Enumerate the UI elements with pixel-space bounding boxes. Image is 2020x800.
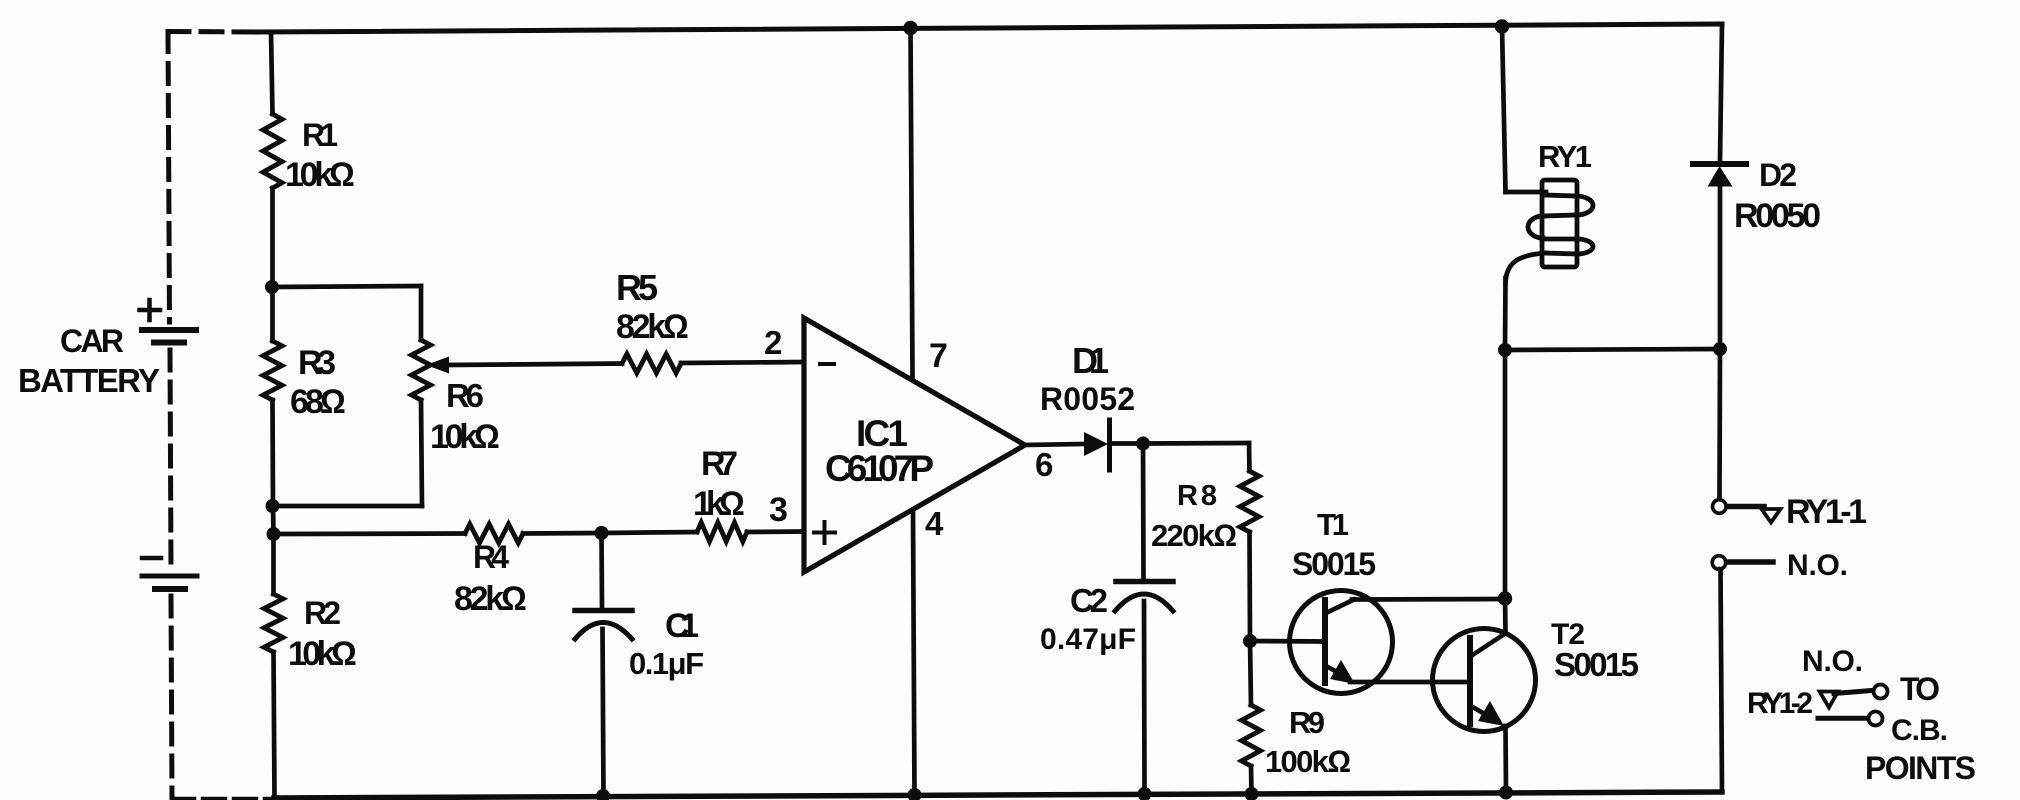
resistor R2 [264,594,283,652]
svg-text:10kΩ: 10kΩ [288,635,357,673]
wire op-amp output [1025,444,1084,445]
wire relay entry [1506,190,1547,195]
svg-text:S0015: S0015 [1292,546,1376,582]
node D junction dot [595,526,609,540]
capacitor C2 bottom lead [1142,601,1147,794]
node C1-bottom junction dot [596,789,610,800]
svg-text:N.O.: N.O. [1802,645,1863,678]
wire R7 to op-amp pin 3 [747,529,804,534]
svg-text:0.47μF: 0.47μF [1040,623,1136,656]
wire pot box top [272,286,421,287]
contact RY1-2 upper arm [1834,691,1872,694]
svg-text:6: 6 [1035,446,1053,483]
svg-text:R0050: R0050 [1734,197,1821,235]
resistor R7 [697,523,747,542]
wire R8 to node F [1247,532,1252,641]
wire R1 to node A [270,188,275,287]
wire R8 top lead [1247,443,1252,471]
capacitor C1 bottom lead [603,629,604,796]
wire R5 to op-amp pin 2 [681,362,804,363]
wire D2 branch top [1720,24,1722,161]
wire bottom bus [274,792,1722,798]
wire relay branch down [1502,27,1506,193]
svg-text:D1: D1 [1072,340,1109,381]
op-amp minus sign [820,362,834,366]
svg-text:2: 2 [764,324,782,361]
battery cell plus long plate [142,327,196,333]
resistor R1 [263,114,282,188]
diode D2 cathode bar [1693,161,1746,167]
wire node C to R2 [271,534,276,594]
capacitor C2 bottom curved plate [1115,594,1173,611]
contact RY1-2 wiper triangle [1820,692,1839,708]
contact RY1-1 arm [1727,504,1764,510]
svg-text:7: 7 [929,337,948,375]
battery plus sign [140,300,161,320]
resistor R9 [1242,705,1261,766]
svg-text:POINTS: POINTS [1865,750,1976,786]
relay RY1 coil [1506,180,1594,283]
wire relay to node G [1503,278,1508,350]
battery dashed lead vertical upper [168,32,170,323]
svg-text:R6: R6 [446,377,484,414]
R6 wiper arrow [426,357,449,374]
wire T1 collector [1352,597,1505,602]
svg-text:4: 4 [925,505,944,542]
wire T2 collector [1503,599,1508,634]
contact N.O. arm [1727,559,1774,565]
battery dashed lead bottom [172,797,274,800]
wire node C to R4 [274,531,466,536]
wire R9 to bottom bus [1249,766,1254,794]
svg-text:R4: R4 [473,539,509,575]
capacitor C1 top plate [575,608,632,614]
node R9-bottom junction dot [1245,787,1259,800]
contact RY1-2 lower arm [1818,716,1867,721]
svg-text:TO: TO [1900,671,1940,707]
wire node D to R7 [602,532,698,533]
svg-text:S0015: S0015 [1554,646,1639,683]
op-amp plus sign [814,522,835,543]
diode D2 [1708,166,1733,187]
potentiometer R6 [412,340,431,400]
capacitor C2 top lead [1141,444,1146,579]
node C junction dot [267,527,281,541]
wire R3 to node B [270,400,275,506]
battery cell minus long plate [142,574,197,579]
wire node A to R3 [270,287,275,341]
svg-text:RY1-1: RY1-1 [1786,493,1867,531]
node H junction dot [1713,342,1727,356]
wire pin 7 [911,28,913,376]
battery dashed lead top [168,29,257,35]
battery cell plus short plate [154,340,184,346]
wire R6 top lead [419,286,424,340]
wire left branch top [271,32,273,114]
wire node B to node C [271,506,276,534]
node C2-bottom junction dot [1138,787,1152,800]
node B junction dot [266,499,280,513]
contact RY1-1 terminal circle upper [1713,500,1727,514]
wire T1 emitter to T2 base [1350,680,1470,685]
svg-text:CAR: CAR [60,323,124,359]
svg-text:3: 3 [769,491,788,529]
svg-text:R3: R3 [298,344,336,382]
svg-text:RY1: RY1 [1538,139,1592,174]
svg-text:C1: C1 [665,607,699,645]
wire N.O. terminal to bottom bus [1721,569,1723,792]
battery minus sign [142,556,161,561]
wire D2 to node H [1718,185,1723,349]
svg-text:BATTERY: BATTERY [18,362,160,399]
svg-text:D2: D2 [1759,157,1797,193]
resistor R4 [465,524,523,543]
battery dashed lead vertical lower [171,596,172,798]
wire wiper to R5 [446,364,622,366]
node pin4-bottom junction dot [908,788,922,800]
resistor R8 [1240,471,1259,532]
wire top bus [257,24,1722,32]
wire node E to R8 [1143,441,1249,446]
node relay-top junction dot [1495,19,1509,33]
node A junction dot [265,280,279,294]
wire D1 to node E [1110,441,1144,446]
wire node G to node H [1505,349,1720,350]
svg-text:C2: C2 [1070,582,1108,619]
contact RY1-2 lower terminal circle [1869,712,1883,726]
contact RY1-1 wiper triangle [1762,509,1781,523]
diode D1 [1084,432,1108,456]
svg-text:82kΩ: 82kΩ [454,580,527,618]
svg-text:C6107P: C6107P [825,448,934,489]
diode D1 cathode bar [1107,420,1112,470]
svg-text:0.1μF: 0.1μF [629,646,704,681]
svg-text:C.B.: C.B. [1891,714,1948,747]
wire pin 4 [913,512,915,795]
transistor T2 [1433,629,1536,732]
wire T collector node up to relay branch [1503,350,1508,599]
node G junction dot [1498,343,1512,357]
wire pot box bottom [273,504,423,509]
transistor T1 [1290,591,1393,694]
op-amp U1 triangle [804,318,1025,572]
resistor R3 [263,341,282,400]
svg-text:N.O.: N.O. [1787,549,1848,582]
svg-text:R7: R7 [701,445,738,483]
node E junction dot [1136,437,1150,451]
wire node F to T1 base [1250,639,1325,644]
node T-collector junction dot [1498,591,1512,605]
wire R2 to bottom bus [274,652,275,798]
capacitor C1 bottom curved plate [575,623,632,640]
capacitor C2 top plate [1116,579,1173,585]
wire R4 to node D [523,531,602,536]
svg-text:RY1-2: RY1-2 [1747,687,1813,720]
svg-text:R2: R2 [304,595,341,631]
svg-text:R9: R9 [1289,705,1325,740]
wire R6 bottom lead [421,400,422,506]
node pin7-top junction dot [903,21,917,35]
svg-text:10kΩ: 10kΩ [285,156,355,194]
battery cell minus short plate [155,586,185,592]
svg-text:220kΩ: 220kΩ [1151,518,1237,553]
battery dashed lead vertical middle [170,350,171,568]
svg-text:R8: R8 [1177,480,1217,512]
svg-text:68Ω: 68Ω [290,383,346,421]
svg-text:100kΩ: 100kΩ [1265,744,1351,779]
svg-text:1kΩ: 1kΩ [693,485,745,523]
node T2-emitter-bottom junction dot [1499,786,1513,800]
wire node F to R9 [1250,641,1251,705]
contact N.O. terminal circle lower [1712,556,1726,570]
svg-text:T1: T1 [1317,507,1349,542]
wire node H to contact RY1-1 [1717,349,1722,499]
wire T2 emitter to bottom bus [1503,726,1508,793]
capacitor C1 top lead [599,533,604,608]
svg-text:82kΩ: 82kΩ [616,308,689,346]
svg-text:10kΩ: 10kΩ [430,418,500,456]
svg-text:R0052: R0052 [1040,381,1135,417]
node F junction dot [1243,634,1257,648]
svg-text:R1: R1 [302,117,338,153]
resistor R5 [622,354,681,373]
contact RY1-2 upper terminal circle [1874,685,1888,699]
svg-text:R5: R5 [616,267,658,308]
